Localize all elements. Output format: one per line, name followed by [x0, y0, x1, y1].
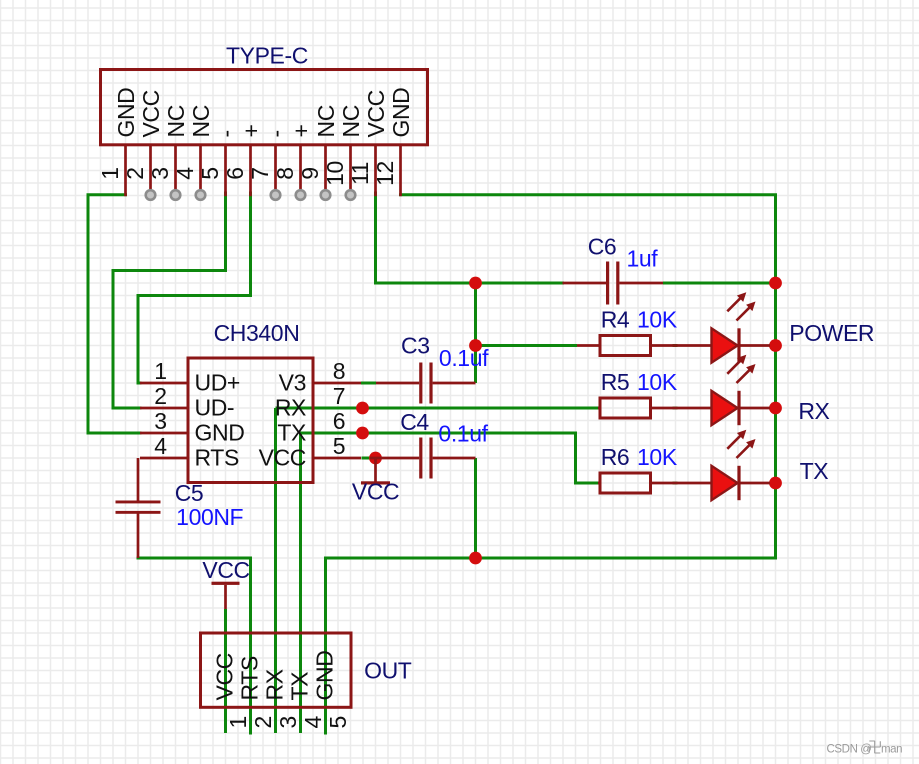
- svg-text:VCC: VCC: [363, 90, 389, 137]
- svg-text:5: 5: [197, 167, 223, 179]
- svg-text:V3: V3: [279, 370, 306, 396]
- svg-text:R4: R4: [601, 306, 630, 332]
- svg-text:UD-: UD-: [195, 395, 235, 421]
- unconnected pin circle TYPE-C pin 9: [321, 190, 331, 200]
- LED D5 triangle: [712, 391, 738, 425]
- wire TYPE-C pin1 GND to CH340N GND: [88, 195, 140, 433]
- LED D4 triangle: [712, 328, 738, 362]
- wire TYPE-C pin11 VCC down to C6 rail: [376, 193, 563, 283]
- capacitor C4 leads: [370, 457, 419, 460]
- LED D4 light arrow 2: [737, 307, 751, 321]
- wire TX down to OUT pin4: [299, 433, 302, 733]
- wire TX row CH340N pin6 to R6: [301, 433, 601, 483]
- resistor R6 body: [600, 473, 651, 493]
- svg-text:5: 5: [333, 433, 345, 459]
- svg-text:NC: NC: [188, 105, 214, 137]
- LED D5 light arrow 2: [737, 369, 751, 383]
- svg-text:9: 9: [297, 167, 323, 179]
- pin 2 TYPE-C: [149, 145, 152, 191]
- unconnected pin circle TYPE-C pin 10: [346, 190, 356, 200]
- unconnected pin circle TYPE-C pin 2: [146, 190, 156, 200]
- LED D6 cathode bar: [737, 466, 740, 500]
- svg-text:GND: GND: [195, 420, 245, 446]
- svg-text:man: man: [881, 744, 902, 756]
- svg-text:5: 5: [325, 716, 351, 728]
- pin 9 TYPE-C: [324, 145, 327, 191]
- pin 8 CH340N right stub: [313, 382, 361, 385]
- svg-text:-: -: [263, 130, 289, 137]
- svg-text:10K: 10K: [637, 306, 678, 332]
- resistor R4 left lead: [577, 344, 600, 347]
- pin 10 TYPE-C: [349, 145, 352, 191]
- resistor R6 left lead: [598, 482, 600, 485]
- svg-text:2: 2: [250, 716, 276, 728]
- svg-text:0.1uf: 0.1uf: [439, 345, 489, 371]
- svg-text:NC: NC: [338, 105, 364, 137]
- capacitor C6 leads: [563, 282, 607, 285]
- capacitor C3 leads: [376, 382, 419, 385]
- svg-text:VCC: VCC: [259, 445, 306, 471]
- wire C6 right to rail: [663, 282, 776, 285]
- svg-text:6: 6: [333, 408, 345, 434]
- LED D6 light arrow 1: [727, 435, 741, 449]
- resistor R4 right lead: [651, 344, 712, 347]
- svg-text:VCC: VCC: [352, 479, 399, 505]
- capacitor C6 plates: [606, 262, 609, 305]
- pin 4 TYPE-C: [199, 145, 202, 191]
- svg-text:TX: TX: [286, 672, 312, 701]
- pin 2 CH340N left stub: [140, 407, 188, 410]
- svg-text:11: 11: [347, 162, 373, 185]
- wire VCC pin5 segment: [362, 457, 371, 460]
- svg-text:6: 6: [222, 167, 248, 179]
- svg-text:3: 3: [154, 408, 166, 434]
- svg-text:4: 4: [300, 716, 326, 729]
- svg-text:CSDN @: CSDN @: [827, 744, 872, 756]
- pin 7 TYPE-C: [274, 145, 277, 191]
- resistor R6 right lead: [651, 482, 712, 485]
- svg-text:VCC: VCC: [138, 90, 164, 137]
- junction node (775.5,283): [769, 277, 782, 290]
- pin 1 TYPE-C: [124, 145, 127, 196]
- svg-text:2: 2: [154, 383, 166, 409]
- resistor R5 right lead: [651, 407, 712, 410]
- unconnected pin circle TYPE-C pin 4: [196, 190, 206, 200]
- svg-text:3: 3: [275, 716, 301, 728]
- junction node (362.5,408): [356, 402, 369, 415]
- pin 1 CH340N left stub: [140, 382, 188, 385]
- pin 5 TYPE-C: [224, 145, 227, 196]
- wire POWER row to R4: [476, 344, 578, 347]
- svg-text:-: -: [213, 130, 239, 137]
- pin 3 CH340N left stub: [140, 432, 188, 435]
- svg-text:10: 10: [322, 161, 348, 186]
- junction node (475.5,283): [469, 277, 482, 290]
- pin 12 TYPE-C: [399, 145, 402, 196]
- svg-text:10K: 10K: [637, 369, 678, 395]
- wire RX row CH340N pin7 to R5: [276, 407, 601, 410]
- pin 3 TYPE-C: [174, 145, 177, 191]
- svg-text:1uf: 1uf: [627, 246, 659, 272]
- wire TYPE-C pin6 D+ to CH340N UD+: [138, 193, 251, 383]
- junction node (775.5,408): [769, 402, 782, 415]
- svg-text:TX: TX: [800, 458, 829, 484]
- svg-text:4: 4: [154, 433, 167, 459]
- pin 5 CH340N right stub: [313, 457, 361, 460]
- svg-text:GND: GND: [388, 88, 414, 138]
- connector J1 TYPE-C box: [101, 70, 428, 145]
- svg-text:RX: RX: [798, 398, 829, 424]
- capacitor C4 plates: [419, 438, 422, 479]
- op-amp U1 CH340N box: [188, 358, 313, 483]
- LED D6 light arrow 2: [737, 444, 751, 458]
- wire tick R4 lead: [673, 344, 678, 347]
- svg-text:VCC: VCC: [202, 557, 249, 583]
- svg-text:NC: NC: [313, 105, 339, 137]
- LED D4 cathode bar: [737, 328, 740, 362]
- LED D4 light arrow 1: [727, 298, 741, 312]
- svg-text:RTS: RTS: [195, 445, 239, 471]
- LED D4 output lead: [740, 344, 770, 347]
- capacitor C3 plates: [419, 363, 422, 404]
- wire TYPE-C pin5 D- to CH340N UD-: [113, 193, 226, 408]
- svg-text:+: +: [238, 124, 264, 137]
- svg-text:1: 1: [154, 358, 166, 384]
- pin 8 TYPE-C: [299, 145, 302, 191]
- capacitor C5 plates: [116, 501, 161, 504]
- junction node (775.5,483): [769, 477, 782, 490]
- svg-text:GND: GND: [113, 88, 139, 138]
- svg-text:1: 1: [97, 167, 123, 179]
- svg-text:TX: TX: [277, 420, 306, 446]
- svg-text:UD+: UD+: [195, 370, 240, 396]
- svg-text:3: 3: [147, 167, 173, 179]
- junction node (362.5,433): [356, 427, 369, 440]
- pin 4 CH340N left stub: [140, 457, 188, 460]
- unconnected pin circle TYPE-C pin 7: [271, 190, 281, 200]
- svg-text:R5: R5: [601, 369, 630, 395]
- svg-text:1: 1: [225, 716, 251, 728]
- svg-text:NC: NC: [163, 105, 189, 137]
- svg-text:C4: C4: [400, 409, 429, 435]
- resistor R4 body: [600, 336, 651, 356]
- svg-text:POWER: POWER: [789, 320, 874, 346]
- wire VCC symbol to OUT pin1: [224, 609, 227, 733]
- wire TYPE-C pin12 GND right rail and bottom rail to OUT pin5: [326, 195, 776, 733]
- unconnected pin circle TYPE-C pin 3: [171, 190, 181, 200]
- svg-text:OUT: OUT: [364, 658, 412, 684]
- capacitor C5 leads: [137, 458, 140, 501]
- svg-text:0.1uf: 0.1uf: [438, 421, 488, 447]
- svg-text:8: 8: [333, 358, 345, 384]
- svg-text:100NF: 100NF: [176, 504, 243, 530]
- pin 11 TYPE-C: [374, 145, 377, 196]
- svg-text:CH340N: CH340N: [214, 320, 300, 346]
- svg-text:C5: C5: [175, 480, 204, 506]
- junction node (775.5,345.5): [769, 339, 782, 352]
- svg-text:C3: C3: [401, 332, 430, 358]
- LED D5 light arrow 1: [727, 360, 741, 374]
- svg-text:10K: 10K: [637, 444, 678, 470]
- wire node vertical C6-junction to C3: [474, 283, 477, 383]
- svg-text:2: 2: [122, 167, 148, 179]
- unconnected pin circle TYPE-C pin 8: [296, 190, 306, 200]
- LED D6 triangle: [712, 466, 738, 500]
- junction node (375.5,458): [369, 452, 382, 465]
- LED D6 output lead: [740, 482, 770, 485]
- resistor R5 left lead: [598, 407, 600, 410]
- junction node (475.5,558): [469, 552, 482, 565]
- LED D5 cathode bar: [737, 391, 740, 425]
- svg-text:RX: RX: [275, 395, 306, 421]
- svg-text:R6: R6: [601, 444, 630, 470]
- wire tick R5 lead: [673, 407, 678, 410]
- svg-text:TYPE-C: TYPE-C: [226, 43, 308, 69]
- svg-text:12: 12: [372, 161, 398, 186]
- svg-text:4: 4: [172, 167, 198, 180]
- svg-text:7: 7: [247, 167, 273, 179]
- svg-text:GND: GND: [311, 651, 337, 701]
- wire RX down to OUT pin3: [274, 408, 277, 733]
- junction node (475.5,345.5): [469, 339, 482, 352]
- wire RTS C5 to OUT pin2: [138, 558, 251, 733]
- svg-text:C6: C6: [588, 234, 617, 260]
- svg-text:RTS: RTS: [236, 656, 262, 700]
- svg-text:+: +: [288, 124, 314, 137]
- power VCC symbol at CH340N pin5: [374, 458, 377, 482]
- wire V3 pin8 segment: [361, 382, 376, 385]
- LED D5 output lead: [740, 407, 770, 410]
- svg-text:8: 8: [272, 167, 298, 179]
- wire tick R6 lead: [673, 482, 678, 485]
- svg-text:7: 7: [333, 383, 345, 409]
- wire C4 right down to bottom rail: [474, 458, 477, 558]
- svg-text:RX: RX: [261, 669, 287, 700]
- pin 6 TYPE-C: [249, 145, 252, 196]
- connector OUT box: [201, 633, 352, 707]
- svg-text:VCC: VCC: [211, 653, 237, 700]
- power VCC symbol at OUT pin1: [212, 582, 240, 585]
- resistor R5 body: [600, 398, 651, 418]
